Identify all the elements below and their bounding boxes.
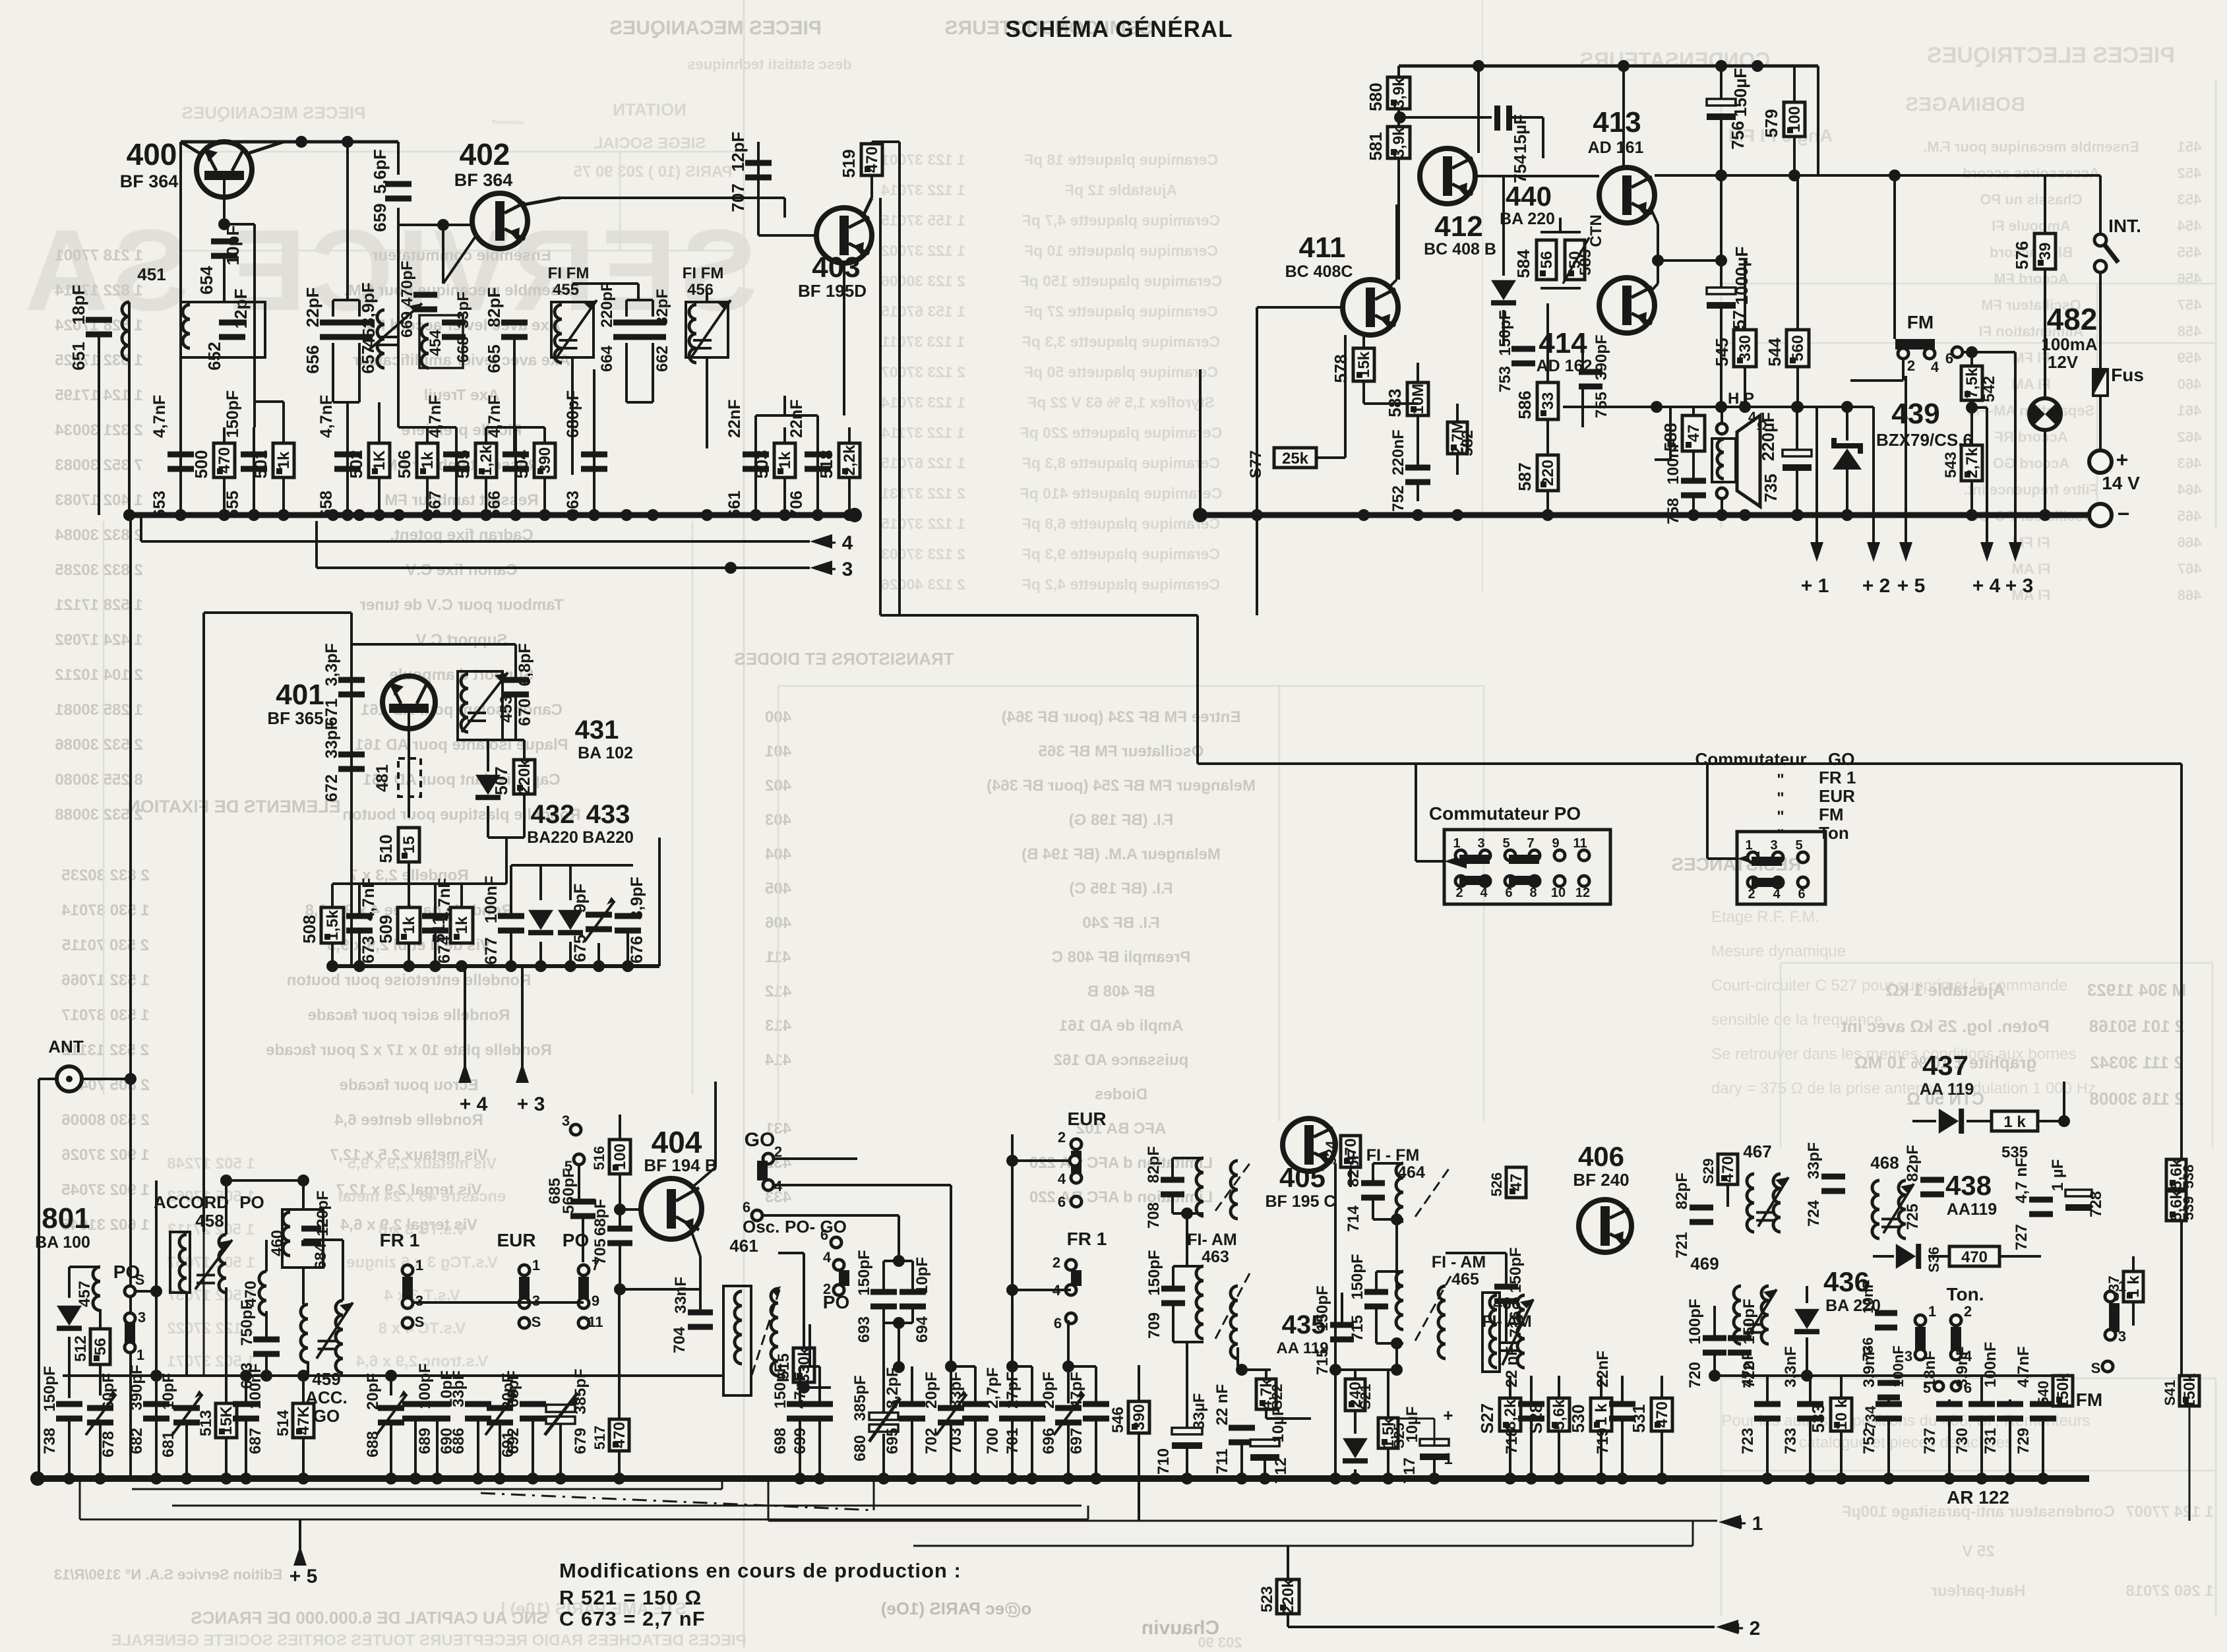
- svg-text:482: 482: [2047, 302, 2098, 336]
- svg-text:465: 465: [1451, 1270, 1479, 1289]
- svg-text:Ceramique plaquette 4,7 pF: Ceramique plaquette 4,7 pF: [1022, 212, 1220, 229]
- svg-text:705: 705: [592, 1239, 609, 1265]
- svg-text:BA220: BA220: [527, 828, 578, 847]
- svg-text:401: 401: [276, 679, 324, 711]
- svg-text:82pF: 82pF: [654, 289, 671, 326]
- svg-text:33nF: 33nF: [672, 1277, 690, 1314]
- svg-text:4,7nF: 4,7nF: [2015, 1346, 2032, 1388]
- svg-text:Rondelle acier pour facade: Rondelle acier pour facade: [308, 1006, 510, 1024]
- svg-text:S21: S21: [1357, 1384, 1374, 1409]
- svg-text:22nF: 22nF: [787, 400, 806, 438]
- svg-text:390pF: 390pF: [128, 1364, 146, 1410]
- svg-text:3,9pF: 3,9pF: [628, 876, 646, 919]
- svg-text:4,7nF: 4,7nF: [150, 395, 169, 438]
- svg-text:33pF: 33pF: [322, 720, 341, 758]
- svg-text:719: 719: [1594, 1428, 1612, 1454]
- svg-text:Accessoires accord: Accessoires accord: [1963, 165, 2100, 181]
- svg-text:1000µF: 1000µF: [1732, 247, 1752, 305]
- svg-text:10M: 10M: [1409, 384, 1427, 415]
- svg-text:20pF: 20pF: [364, 1373, 382, 1410]
- svg-text:3: 3: [532, 1293, 540, 1309]
- svg-text:457: 457: [76, 1281, 94, 1307]
- svg-text:puissance AD 162: puissance AD 162: [1054, 1051, 1189, 1069]
- svg-text:Diodes: Diodes: [1095, 1086, 1147, 1103]
- svg-text:684: 684: [312, 1242, 330, 1270]
- svg-text:1 122 37015: 1 122 37015: [881, 515, 965, 532]
- svg-text:1 530 87014: 1 530 87014: [61, 902, 150, 919]
- svg-text:801: 801: [42, 1202, 90, 1235]
- svg-text:Rondelle entretoise pour bouto: Rondelle entretoise pour bouton: [287, 971, 532, 989]
- svg-text:700: 700: [984, 1428, 1002, 1454]
- svg-text:100nF: 100nF: [1890, 1345, 1907, 1388]
- svg-text:S27: S27: [1477, 1403, 1497, 1434]
- svg-text:Ajustable 1 kΩ: Ajustable 1 kΩ: [1885, 980, 2005, 1000]
- svg-text:526: 526: [1488, 1173, 1505, 1197]
- svg-text:PIECES DETACHEES RADIO RECEP: PIECES DETACHEES RADIO RECEPTEURS TOUTES…: [111, 1632, 746, 1649]
- svg-text:1: 1: [1444, 1450, 1452, 1468]
- svg-text:6: 6: [1054, 1315, 1062, 1331]
- svg-text:1,5k: 1,5k: [324, 909, 342, 940]
- svg-text:656: 656: [303, 345, 322, 373]
- svg-text:Melangeur FM BF 254 (pour BF 3: Melangeur FM BF 254 (pour BF 364): [987, 777, 1256, 795]
- svg-text:100: 100: [611, 1144, 629, 1170]
- svg-text:FI- AM: FI- AM: [1187, 1231, 1236, 1249]
- svg-text:459: 459: [2178, 350, 2202, 366]
- svg-text:659: 659: [370, 203, 390, 231]
- svg-text:PIECES MECANIQUES: PIECES MECANIQUES: [609, 17, 822, 39]
- svg-text:2 111 30342: 2 111 30342: [2090, 1053, 2183, 1072]
- svg-text:AR 122: AR 122: [1947, 1487, 2009, 1508]
- svg-text:FM: FM: [1819, 805, 1844, 824]
- svg-text:1K: 1K: [371, 450, 388, 470]
- svg-text:12pF: 12pF: [728, 132, 748, 172]
- svg-text:578: 578: [1331, 354, 1351, 382]
- svg-text:Ampoule FI: Ampoule FI: [1992, 218, 2071, 234]
- svg-text:33µF: 33µF: [1190, 1393, 1208, 1429]
- svg-text:Ceramique plaquette 4,2 pF: Ceramique plaquette 4,2 pF: [1022, 576, 1220, 593]
- svg-text:S: S: [532, 1314, 541, 1330]
- svg-text:Entree FM BF 234 (pour BF 364): Entree FM BF 234 (pour BF 364): [1002, 708, 1241, 726]
- svg-text:699: 699: [791, 1428, 809, 1454]
- svg-text:+ 2: + 2: [1862, 575, 1891, 597]
- svg-text:470pF: 470pF: [398, 260, 416, 306]
- svg-text:Canon fixe C.V: Canon fixe C.V: [406, 561, 517, 579]
- svg-text:C 673 = 2,7 nF: C 673 = 2,7 nF: [559, 1607, 706, 1630]
- svg-text:519: 519: [839, 149, 859, 177]
- svg-text:1 532 17066: 1 532 17066: [61, 971, 149, 989]
- svg-text:469: 469: [1690, 1254, 1719, 1273]
- svg-text:481: 481: [373, 764, 392, 792]
- svg-text:BF 240: BF 240: [1573, 1170, 1629, 1190]
- svg-text:587: 587: [1515, 462, 1535, 491]
- svg-text:1 902 37026: 1 902 37026: [61, 1146, 149, 1164]
- svg-text:18pF: 18pF: [69, 285, 88, 325]
- svg-text:758: 758: [1664, 498, 1682, 524]
- svg-text:540: 540: [2035, 1381, 2052, 1405]
- svg-text:524: 524: [1323, 1140, 1339, 1165]
- svg-text:100: 100: [1786, 106, 1804, 133]
- svg-text:100nF: 100nF: [1664, 439, 1682, 484]
- svg-text:517: 517: [592, 1426, 608, 1450]
- svg-text:M 304 11923: M 304 11923: [2087, 980, 2186, 1000]
- svg-text:675: 675: [571, 934, 590, 962]
- svg-text:400: 400: [127, 137, 177, 171]
- svg-text:12V: 12V: [2048, 352, 2079, 372]
- svg-text:BF 364: BF 364: [120, 171, 179, 191]
- svg-text:Support C.V: Support C.V: [416, 631, 508, 649]
- svg-text:+ 1: + 1: [1801, 575, 1829, 597]
- svg-text:120pF: 120pF: [314, 1190, 332, 1236]
- svg-text:22 nF: 22 nF: [1213, 1384, 1231, 1426]
- svg-text:2 530 80006: 2 530 80006: [61, 1111, 149, 1129]
- svg-text:701: 701: [1004, 1428, 1022, 1454]
- svg-text:Rondelle plate 10 x 17 x 2 pou: Rondelle plate 10 x 17 x 2 pour facade: [266, 1041, 552, 1059]
- svg-text:731: 731: [1982, 1428, 1999, 1454]
- svg-text:S36: S36: [1926, 1246, 1942, 1272]
- svg-text:PO: PO: [239, 1192, 264, 1212]
- svg-text:Limitation d AFC BA 220: Limitation d AFC BA 220: [1029, 1188, 1213, 1206]
- svg-text:470: 470: [1961, 1248, 1988, 1266]
- svg-text:737: 737: [1921, 1428, 1939, 1454]
- svg-text:+ 2: + 2: [1732, 1618, 1761, 1639]
- svg-text:385pF: 385pF: [572, 1368, 590, 1414]
- svg-text:717: 717: [1401, 1457, 1419, 1484]
- svg-text:651: 651: [69, 342, 88, 370]
- svg-text:6: 6: [820, 1227, 828, 1243]
- svg-text:1 123 37001: 1 123 37001: [881, 151, 965, 168]
- svg-text:1 k: 1 k: [1593, 1403, 1610, 1426]
- svg-text:2 122 37131: 2 122 37131: [881, 485, 965, 502]
- svg-text:413: 413: [1593, 106, 1641, 138]
- svg-text:Accord RF: Accord RF: [1994, 429, 2067, 445]
- svg-text:501: 501: [251, 450, 270, 478]
- svg-text:FM: FM: [1907, 312, 1934, 332]
- svg-text:755: 755: [1593, 392, 1610, 418]
- svg-text:Ceramique plaquette 10 pF: Ceramique plaquette 10 pF: [1024, 242, 1218, 259]
- svg-text:3: 3: [138, 1309, 146, 1326]
- svg-text:INT.: INT.: [2108, 216, 2141, 236]
- svg-text:82pF: 82pF: [1345, 1150, 1362, 1187]
- svg-text:H.P: H.P: [1728, 390, 1754, 408]
- svg-text:543: 543: [1942, 452, 1960, 478]
- svg-text:150pF: 150pF: [224, 390, 242, 438]
- svg-text:523: 523: [1258, 1586, 1276, 1612]
- svg-text:82pF: 82pF: [484, 288, 504, 328]
- svg-text:539: 539: [2180, 1196, 2197, 1221]
- svg-text:": ": [1777, 826, 1784, 844]
- svg-text:5: 5: [1502, 836, 1510, 851]
- svg-text:1 µF: 1 µF: [2049, 1159, 2067, 1192]
- svg-text:14 V: 14 V: [2102, 473, 2140, 493]
- svg-text:437: 437: [1922, 1050, 1968, 1081]
- svg-text:1k: 1k: [453, 916, 471, 934]
- svg-text:703: 703: [947, 1428, 965, 1454]
- svg-text:432: 432: [531, 800, 575, 829]
- svg-text:1 218 77001: 1 218 77001: [55, 247, 142, 264]
- svg-text:4,7nF: 4,7nF: [485, 395, 504, 438]
- svg-text:1 k: 1 k: [2003, 1113, 2026, 1131]
- svg-text:710: 710: [1155, 1448, 1173, 1475]
- svg-text:7: 7: [1527, 836, 1534, 851]
- svg-text:2 116 30008: 2 116 30008: [2089, 1089, 2183, 1109]
- svg-text:": ": [1777, 789, 1784, 807]
- svg-text:82pF: 82pF: [1673, 1173, 1691, 1209]
- svg-text:BF 365: BF 365: [267, 708, 323, 728]
- svg-text:56: 56: [92, 1338, 109, 1356]
- svg-text:ACCORD: ACCORD: [154, 1192, 229, 1212]
- svg-text:FR 1: FR 1: [1067, 1229, 1107, 1249]
- svg-text:10µF: 10µF: [1269, 1406, 1287, 1442]
- svg-text:S: S: [2091, 1360, 2101, 1376]
- svg-text:1: 1: [1453, 836, 1460, 851]
- svg-text:586: 586: [1515, 390, 1535, 419]
- svg-text:BF 364: BF 364: [454, 170, 513, 190]
- svg-text:724: 724: [1805, 1200, 1823, 1227]
- svg-text:1 124 77007: 1 124 77007: [2125, 1503, 2213, 1521]
- svg-text:665: 665: [484, 344, 504, 373]
- svg-text:EUR: EUR: [1819, 786, 1855, 806]
- svg-text:Haut-parleur: Haut-parleur: [1932, 1582, 2026, 1600]
- svg-text:5,6pF: 5,6pF: [370, 149, 390, 194]
- svg-text:4,7nF: 4,7nF: [317, 395, 336, 438]
- svg-text:454: 454: [427, 329, 444, 356]
- svg-text:AA 119: AA 119: [1276, 1339, 1328, 1357]
- svg-text:3: 3: [1770, 838, 1777, 853]
- svg-text:82pF: 82pF: [1145, 1146, 1163, 1183]
- svg-text:582: 582: [1459, 430, 1477, 456]
- svg-text:56: 56: [1538, 251, 1556, 269]
- svg-text:708: 708: [1145, 1202, 1163, 1229]
- svg-text:1 122 67015: 1 122 67015: [881, 454, 965, 472]
- svg-text:22nF: 22nF: [1594, 1351, 1612, 1388]
- svg-text:654: 654: [197, 266, 216, 295]
- svg-text:NOITATN: NOITATN: [613, 100, 686, 119]
- svg-text:Ampli de AD 161: Ampli de AD 161: [1059, 1017, 1184, 1035]
- svg-text:463: 463: [1202, 1248, 1229, 1266]
- svg-text:47pF: 47pF: [1068, 1372, 1085, 1409]
- svg-text:1 502 17248: 1 502 17248: [167, 1155, 255, 1173]
- svg-text:560pF: 560pF: [560, 1168, 578, 1213]
- svg-text:680pF: 680pF: [564, 390, 582, 438]
- svg-text:GO: GO: [745, 1129, 776, 1151]
- svg-text:+ 4: + 4: [1972, 575, 2001, 597]
- svg-text:BA 100: BA 100: [35, 1233, 90, 1252]
- svg-text:+ 3: + 3: [2005, 575, 2034, 597]
- svg-text:BF 195 C: BF 195 C: [1266, 1192, 1336, 1211]
- svg-text:+ 5: + 5: [290, 1566, 318, 1587]
- svg-text:PO- GO: PO- GO: [785, 1217, 847, 1237]
- svg-text:PIECES ELECTRIQUES: PIECES ELECTRIQUES: [1927, 43, 2175, 68]
- svg-text:220: 220: [1539, 460, 1557, 486]
- svg-text:68pF: 68pF: [504, 1370, 522, 1407]
- svg-text:33pF: 33pF: [947, 1372, 965, 1409]
- svg-text:696: 696: [1040, 1428, 1058, 1454]
- svg-text:Ceramique plaquette 150 pF: Ceramique plaquette 150 pF: [1020, 272, 1223, 290]
- svg-text:460: 460: [2178, 376, 2202, 392]
- svg-text:662: 662: [654, 346, 671, 372]
- svg-text:11: 11: [588, 1314, 603, 1330]
- svg-text:2: 2: [1907, 357, 1915, 374]
- svg-text:2: 2: [1052, 1254, 1060, 1271]
- svg-text:1 155 37015: 1 155 37015: [881, 212, 965, 229]
- svg-text:688: 688: [364, 1431, 382, 1457]
- svg-text:580: 580: [1366, 82, 1386, 111]
- svg-text:R 521 = 150 Ω: R 521 = 150 Ω: [559, 1586, 702, 1609]
- svg-text:S29: S29: [1700, 1158, 1717, 1184]
- svg-text:150k: 150k: [2181, 1373, 2199, 1409]
- svg-text:F.I. (BF 198 G): F.I. (BF 198 G): [1069, 811, 1174, 829]
- svg-text:2: 2: [1964, 1303, 1972, 1320]
- svg-text:390: 390: [1130, 1404, 1148, 1430]
- svg-text:721: 721: [1673, 1232, 1691, 1258]
- svg-text:Ton.: Ton.: [1946, 1284, 1984, 1304]
- svg-text:22pF: 22pF: [303, 288, 322, 328]
- svg-text:+: +: [2116, 448, 2129, 472]
- svg-text:10pF: 10pF: [223, 226, 243, 266]
- svg-text:+ 4: + 4: [460, 1093, 488, 1115]
- svg-text:150µF: 150µF: [1730, 68, 1750, 117]
- svg-text:150pF: 150pF: [855, 1250, 873, 1295]
- svg-text:15k: 15k: [1355, 351, 1373, 378]
- svg-text:664: 664: [598, 345, 616, 372]
- svg-text:692: 692: [504, 1428, 522, 1454]
- svg-text:SIEGE SOCIAL: SIEGE SOCIAL: [594, 135, 706, 152]
- svg-text:Ceramique plaquette 6,8 pF: Ceramique plaquette 6,8 pF: [1022, 515, 1220, 532]
- svg-text:150pF: 150pF: [1496, 310, 1514, 355]
- svg-text:S28: S28: [1526, 1403, 1546, 1434]
- svg-text:33pF: 33pF: [1805, 1142, 1823, 1179]
- svg-text:27pF: 27pF: [1004, 1372, 1022, 1409]
- svg-text:687: 687: [247, 1428, 264, 1454]
- svg-text:657: 657: [358, 345, 378, 373]
- svg-text:581: 581: [1366, 132, 1386, 160]
- svg-text:680: 680: [851, 1435, 869, 1461]
- svg-text:encastre 45 x 24 metal: encastre 45 x 24 metal: [338, 1188, 506, 1206]
- svg-text:404: 404: [652, 1125, 702, 1159]
- svg-text:+ 3: + 3: [825, 559, 853, 580]
- svg-text:412: 412: [1434, 210, 1482, 243]
- svg-text:82pF: 82pF: [1904, 1145, 1922, 1182]
- svg-text:100nF: 100nF: [482, 876, 501, 923]
- svg-text:Mesure dynamique: Mesure dynamique: [1711, 942, 1846, 960]
- svg-text:+ 4: + 4: [825, 532, 853, 554]
- svg-text:1 153 67015: 1 153 67015: [881, 303, 965, 320]
- svg-text:3: 3: [2118, 1328, 2126, 1345]
- svg-text:750pF: 750pF: [238, 1300, 256, 1345]
- svg-text:F.I. BF 240: F.I. BF 240: [1082, 914, 1159, 932]
- svg-text:513: 513: [197, 1410, 215, 1436]
- svg-text:22nF: 22nF: [725, 400, 744, 438]
- svg-text:673: 673: [359, 936, 378, 964]
- svg-text:Edition Service S.A. N° 319: Edition Service S.A. N° 3190/R/13: [54, 1566, 282, 1583]
- svg-text:Commutateur: Commutateur: [1695, 749, 1806, 769]
- svg-text:FI - FM: FI - FM: [1366, 1146, 1420, 1165]
- svg-text:9: 9: [592, 1293, 599, 1309]
- svg-text:FI FM: FI FM: [683, 264, 724, 282]
- svg-text:403: 403: [812, 251, 860, 284]
- svg-text:453: 453: [2178, 191, 2202, 208]
- svg-text:702: 702: [923, 1428, 940, 1454]
- svg-text:1 260 27018: 1 260 27018: [2125, 1582, 2213, 1600]
- svg-text:453: 453: [497, 695, 516, 723]
- svg-text:435: 435: [1282, 1310, 1326, 1339]
- svg-text:510: 510: [376, 834, 396, 863]
- svg-text:2 123 30006: 2 123 30006: [881, 272, 965, 290]
- svg-text:693: 693: [855, 1316, 873, 1343]
- svg-text:ANT: ANT: [48, 1037, 84, 1056]
- svg-text:752: 752: [1860, 1428, 1878, 1454]
- svg-text:AA 119: AA 119: [1920, 1080, 1974, 1099]
- svg-text:1k: 1k: [776, 451, 794, 469]
- svg-text:440: 440: [1506, 181, 1552, 212]
- svg-text:150pF: 150pF: [1349, 1254, 1366, 1299]
- svg-text:SCHÉMA GÉNÉRAL: SCHÉMA GÉNÉRAL: [1005, 16, 1233, 42]
- svg-text:676: 676: [628, 936, 646, 964]
- svg-text:33: 33: [1539, 392, 1557, 410]
- svg-text:1 530 87017: 1 530 87017: [61, 1006, 149, 1024]
- svg-text:10µF: 10µF: [1403, 1406, 1421, 1442]
- svg-text:BA220: BA220: [582, 828, 634, 847]
- svg-text:BA 102: BA 102: [578, 744, 633, 762]
- svg-text:504: 504: [512, 450, 532, 479]
- svg-text:100mA: 100mA: [2041, 334, 2097, 354]
- svg-text:4: 4: [823, 1249, 832, 1266]
- svg-text:2 123 37007: 2 123 37007: [881, 363, 965, 381]
- svg-text:452: 452: [2178, 165, 2202, 181]
- svg-text:220k: 220k: [516, 759, 534, 795]
- svg-text:15: 15: [400, 836, 418, 854]
- svg-text:470: 470: [863, 146, 881, 173]
- svg-text:712: 712: [1272, 1457, 1290, 1484]
- svg-text:Ajustable 12 pF: Ajustable 12 pF: [1065, 181, 1177, 199]
- svg-text:1 123 37011: 1 123 37011: [881, 333, 965, 350]
- svg-text:455: 455: [2178, 244, 2202, 260]
- svg-text:454: 454: [2177, 218, 2201, 234]
- svg-text:−: −: [2118, 502, 2130, 526]
- svg-text:F.I. (BF 195 C): F.I. (BF 195 C): [1069, 880, 1173, 898]
- svg-text:Commutateur PO: Commutateur PO: [1429, 803, 1581, 824]
- svg-text:1k: 1k: [275, 451, 293, 469]
- svg-text:Ceramique plaquette 410 pF: Ceramique plaquette 410 pF: [1020, 485, 1223, 502]
- svg-text:678: 678: [100, 1431, 117, 1457]
- svg-text:FI FM: FI FM: [548, 264, 590, 282]
- svg-text:BC 408 B: BC 408 B: [1424, 240, 1496, 259]
- svg-text:20pF: 20pF: [923, 1372, 940, 1409]
- svg-text:516: 516: [591, 1146, 607, 1171]
- svg-text:470: 470: [1719, 1156, 1737, 1182]
- svg-text:518: 518: [816, 450, 836, 478]
- svg-text:Ceramique plaquette 50 pF: Ceramique plaquette 50 pF: [1024, 363, 1218, 381]
- svg-text:47K: 47K: [295, 1405, 313, 1435]
- svg-text:18nF: 18nF: [1921, 1351, 1939, 1388]
- svg-text:+ 3: + 3: [517, 1093, 545, 1115]
- svg-text:468: 468: [2178, 587, 2202, 603]
- svg-text:3: 3: [562, 1113, 570, 1129]
- svg-text:414: 414: [1539, 327, 1587, 359]
- svg-text:695: 695: [884, 1428, 901, 1454]
- svg-text:BF 408 B: BF 408 B: [1087, 983, 1155, 1000]
- svg-text:738: 738: [41, 1428, 59, 1454]
- svg-text:1: 1: [1745, 838, 1752, 853]
- svg-text:560: 560: [1789, 335, 1807, 361]
- svg-text:715: 715: [1349, 1315, 1366, 1341]
- svg-text:670: 670: [516, 698, 534, 726]
- svg-text:725: 725: [1904, 1204, 1922, 1230]
- svg-text:7,5k: 7,5k: [1963, 367, 1981, 398]
- svg-text:1: 1: [532, 1257, 540, 1273]
- svg-text:458: 458: [195, 1211, 224, 1231]
- svg-text:1: 1: [415, 1257, 423, 1273]
